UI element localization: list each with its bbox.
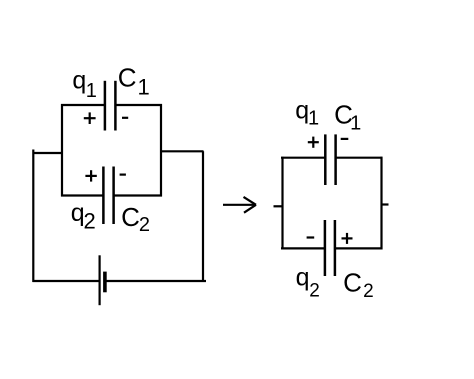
wire: left circuit inner-loop top, right of C1 xyxy=(115,104,162,106)
label C1 (right circuit) xyxy=(334,100,361,135)
svg-text:1: 1 xyxy=(350,112,361,134)
wire: left circuit right stub at mid height xyxy=(160,150,204,152)
wire: left circuit inner-loop top, left of C1 xyxy=(61,104,105,106)
wire: left circuit outer left side xyxy=(32,150,34,283)
svg-text:C: C xyxy=(118,62,137,92)
wire: right circuit bottom, left of C2 xyxy=(281,247,325,249)
minus sign of C2 (left circuit) xyxy=(120,174,126,176)
wire: right circuit right side xyxy=(380,157,382,250)
label q1 (left circuit) xyxy=(72,66,97,102)
wire: left circuit bottom, right of battery xyxy=(105,280,206,282)
svg-text:q: q xyxy=(72,66,86,94)
wire: left circuit left stub at mid height xyxy=(33,152,63,154)
wire: right circuit top, left of C1 xyxy=(281,157,325,159)
wire: left circuit inner-loop right side xyxy=(160,104,162,197)
capacitor C1 (right circuit) xyxy=(325,134,335,185)
wire: right circuit left terminal stub xyxy=(274,205,283,207)
plus sign of C1 (right circuit) xyxy=(308,137,319,148)
svg-text:2: 2 xyxy=(363,281,374,302)
svg-text:2: 2 xyxy=(84,208,96,233)
plus sign of C1 (left circuit) xyxy=(84,112,96,124)
capacitor C1 (left circuit) xyxy=(105,81,116,131)
label C2 (left circuit) xyxy=(121,202,150,236)
label C1 (left circuit) xyxy=(118,62,150,99)
capacitor C2 (right circuit) xyxy=(325,220,335,276)
label q1 (right circuit) xyxy=(295,96,319,129)
wire: left circuit bottom, left of battery xyxy=(33,280,100,282)
svg-text:2: 2 xyxy=(309,281,320,302)
minus sign of C1 (left circuit) xyxy=(122,117,128,119)
battery (left circuit): short thick negative plate xyxy=(103,272,107,293)
wire: right circuit top, right of C1 xyxy=(336,157,383,159)
plus sign of C2 (left circuit) xyxy=(85,170,96,181)
svg-text:C: C xyxy=(343,268,362,298)
minus sign of C1 (right circuit) xyxy=(341,138,349,140)
wire: left circuit inner-loop left side xyxy=(61,104,63,197)
wire: left circuit inner-loop bottom, right of C2 xyxy=(114,194,162,196)
label q2 (left circuit) xyxy=(71,199,96,233)
minus sign of C2 (right circuit) xyxy=(307,236,315,238)
svg-text:2: 2 xyxy=(139,214,150,236)
svg-text:1: 1 xyxy=(138,75,150,100)
wire: right circuit right terminal stub xyxy=(382,203,389,205)
battery (left circuit): long positive plate xyxy=(98,255,100,305)
wire: left circuit outer right side xyxy=(202,151,204,282)
svg-text:1: 1 xyxy=(308,107,319,129)
capacitor C2 (left circuit) xyxy=(103,167,113,225)
label C2 (right circuit) xyxy=(343,268,374,302)
wire: left circuit inner-loop bottom, left of C2 xyxy=(61,194,103,196)
svg-text:q: q xyxy=(296,264,310,292)
wire: right circuit left side xyxy=(281,157,283,250)
svg-text:1: 1 xyxy=(86,80,97,102)
plus sign of C2 (right circuit) xyxy=(342,233,353,244)
svg-text:C: C xyxy=(121,202,140,232)
label q2 (right circuit) xyxy=(296,264,320,302)
wire: right circuit bottom, right of C2 xyxy=(335,247,383,249)
arrow: transformation arrow between circuits xyxy=(223,197,256,213)
